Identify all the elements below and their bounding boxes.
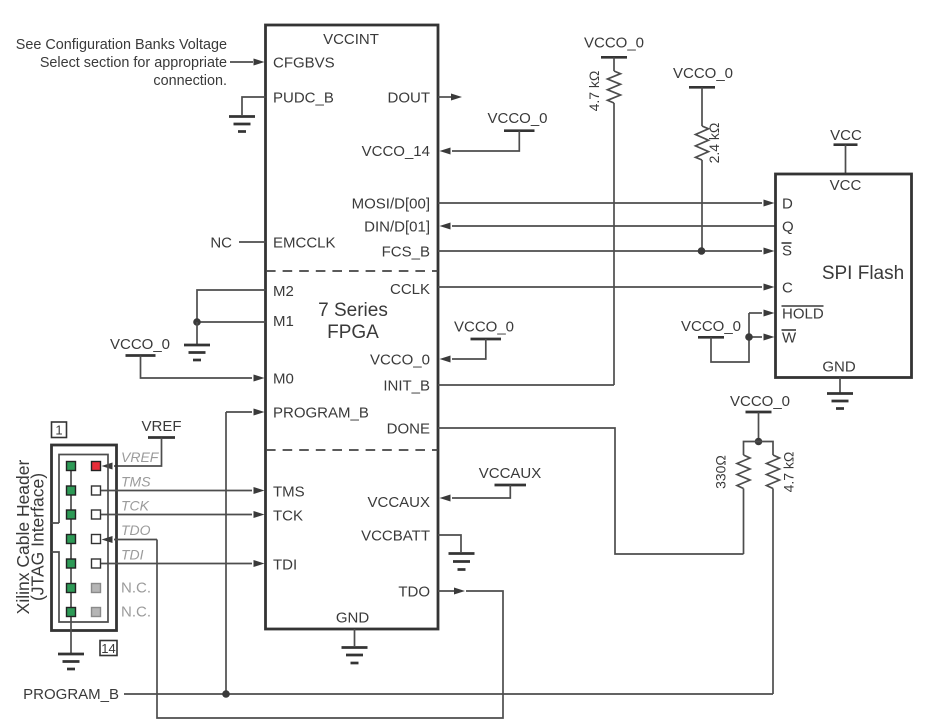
JTAG header J1 — [52, 422, 118, 669]
svg-text:CFGBVS: CFGBVS — [273, 55, 335, 72]
wire PROGRAM_B horizontal net — [124, 693, 773, 695]
svg-text:W: W — [782, 330, 797, 347]
svg-text:VCCO_0: VCCO_0 — [110, 336, 170, 353]
junction W / VCCO_0 — [745, 333, 753, 341]
svg-text:VCC: VCC — [830, 177, 862, 194]
wire DONE to R3 — [438, 428, 744, 554]
svg-text:DOUT: DOUT — [388, 90, 431, 107]
resistor R1 4.7 kOhm — [586, 71, 621, 112]
ground for VCCBATT — [449, 554, 475, 570]
header pin TMS — [92, 486, 101, 495]
power VCCO_0 rail for R3/R4 — [730, 393, 790, 442]
power VREF rail — [102, 418, 182, 470]
junction M1/M2 — [193, 318, 201, 326]
svg-text:D: D — [782, 196, 793, 213]
wire R4 bottom to PROGRAM_B — [772, 489, 774, 695]
svg-text:VCCINT: VCCINT — [323, 31, 379, 48]
header left pin column wire — [70, 466, 72, 612]
dashed partition 2 — [266, 449, 438, 451]
svg-text:VCCO_0: VCCO_0 — [673, 65, 733, 82]
svg-text:GND: GND — [822, 359, 856, 376]
wire MOSI to D — [438, 202, 762, 204]
svg-text:1: 1 — [55, 423, 62, 438]
svg-text:DONE: DONE — [387, 421, 430, 438]
svg-text:SPI Flash: SPI Flash — [822, 263, 904, 284]
svg-text:TCK: TCK — [121, 498, 150, 514]
svg-text:VCCO_0: VCCO_0 — [487, 110, 547, 127]
svg-text:EMCCLK: EMCCLK — [273, 235, 336, 252]
svg-text:Q: Q — [782, 219, 794, 236]
header pin TCK — [92, 510, 101, 519]
svg-text:VCCO_14: VCCO_14 — [362, 143, 430, 160]
svg-text:INIT_B: INIT_B — [383, 378, 430, 395]
power VCCO_0 rail + resistor R1 4.7k (INIT_B pullup) — [584, 35, 644, 72]
wire DOUT out — [438, 96, 453, 98]
svg-text:See Configuration Banks Voltag: See Configuration Banks Voltage — [16, 37, 227, 53]
power VCCO_0 rail + resistor R2 2.4k (FCS pullup) — [673, 65, 733, 126]
power VCCAUX rail — [440, 465, 542, 502]
svg-text:(JTAG Interface): (JTAG Interface) — [28, 473, 48, 601]
svg-text:VCCO_0: VCCO_0 — [730, 393, 790, 410]
power VCCO_0 rail for FPGA VCCO_0 pin — [440, 319, 515, 363]
wire M2 — [197, 290, 266, 322]
header green pins — [67, 462, 76, 471]
wire TDI — [101, 563, 252, 565]
svg-text:M0: M0 — [273, 371, 294, 388]
header pin NC2 gray — [92, 608, 101, 617]
resistor R2 2.4 kOhm — [696, 123, 723, 164]
ground for PUDC_B — [229, 97, 266, 132]
svg-text:N.C.: N.C. — [121, 580, 151, 597]
dashed partition 1 — [266, 270, 438, 272]
wire to HOLD — [749, 312, 762, 314]
svg-text:DIN/D[01]: DIN/D[01] — [364, 219, 430, 236]
junction PROGRAM_B — [222, 690, 230, 698]
wire R2 to FCS_B net — [701, 160, 703, 251]
svg-text:HOLD: HOLD — [782, 306, 824, 323]
wire TDO out of FPGA — [438, 590, 455, 592]
svg-text:VREF: VREF — [141, 418, 181, 435]
wire PROGRAM_B arrow into FPGA — [226, 411, 252, 413]
svg-text:14: 14 — [101, 641, 115, 656]
wire NC to EMCCLK — [239, 241, 266, 243]
FPGA U1 box — [266, 25, 439, 629]
svg-text:GND: GND — [336, 610, 370, 627]
svg-text:VCC: VCC — [830, 127, 862, 144]
wire FCS_B to S — [438, 250, 762, 252]
svg-text:TMS: TMS — [121, 474, 151, 490]
svg-text:330Ω: 330Ω — [713, 455, 729, 489]
header ground stem — [70, 612, 72, 653]
wire PROGRAM_B vertical — [225, 412, 227, 694]
power VCCO_0 rail for VCCO_14 — [440, 110, 548, 155]
svg-text:4.7 kΩ: 4.7 kΩ — [586, 71, 602, 112]
ground for FPGA GND — [342, 629, 368, 663]
header outer box — [52, 445, 117, 631]
junction VCCO_0 / R3 R4 — [755, 438, 763, 446]
wire note to CFGBVS — [230, 61, 253, 63]
header vertical caption — [13, 460, 48, 615]
wire R3 bottom to DONE — [743, 489, 745, 555]
header pin VREF red — [92, 462, 101, 471]
header pin NC1 gray — [92, 584, 101, 593]
SPI Flash U2 box — [776, 174, 912, 378]
wire VCCBATT to ground — [438, 535, 461, 552]
wire INIT_B — [438, 384, 614, 386]
svg-text:TDO: TDO — [121, 522, 151, 538]
header inner outline with key notch — [52, 455, 109, 623]
svg-text:FCS_B: FCS_B — [382, 244, 430, 261]
note: See Configuration Banks Voltage text — [16, 37, 227, 89]
svg-text:VCCO_0: VCCO_0 — [681, 318, 741, 335]
header pin TDI — [92, 559, 101, 568]
svg-text:4.7 kΩ: 4.7 kΩ — [781, 452, 797, 493]
svg-text:M1: M1 — [273, 313, 294, 330]
svg-text:2.4 kΩ: 2.4 kΩ — [706, 123, 722, 164]
wire M1 — [197, 321, 266, 323]
svg-text:TDO: TDO — [398, 584, 430, 601]
pin 14 marker — [100, 641, 117, 656]
power VCCO_0 rail for M0 — [110, 336, 265, 382]
wire R1 to INIT_B — [613, 103, 615, 385]
ground for header — [58, 653, 84, 656]
svg-text:connection.: connection. — [153, 73, 227, 89]
ground for SPI GND — [827, 378, 853, 409]
header pin TDO — [92, 535, 101, 544]
svg-text:FPGA: FPGA — [327, 322, 379, 343]
resistor R4 4.7 kOhm — [767, 452, 797, 493]
power VCCO_0 rail for HOLD/W — [681, 313, 749, 362]
svg-text:S: S — [782, 243, 792, 260]
svg-text:TDI: TDI — [121, 547, 144, 563]
wire TMS — [101, 490, 252, 492]
svg-text:VCCO_0: VCCO_0 — [584, 35, 644, 52]
wire to resistor tops — [744, 442, 774, 456]
svg-text:VCCO_0: VCCO_0 — [370, 352, 430, 369]
svg-text:NC: NC — [210, 235, 232, 252]
svg-text:C: C — [782, 280, 793, 297]
svg-text:M2: M2 — [273, 283, 294, 300]
svg-text:Select section for appropriate: Select section for appropriate — [40, 55, 227, 71]
svg-text:7 Series: 7 Series — [318, 300, 388, 321]
svg-text:TMS: TMS — [273, 484, 305, 501]
svg-text:MOSI/D[00]: MOSI/D[00] — [352, 196, 430, 213]
ground for M1/M2 — [184, 322, 210, 360]
svg-text:N.C.: N.C. — [121, 604, 151, 621]
svg-text:VCCBATT: VCCBATT — [361, 528, 430, 545]
svg-text:VCCO_0: VCCO_0 — [454, 319, 514, 336]
resistor R3 330 Ohm — [713, 455, 751, 489]
wire TDO loop from FPGA to header — [157, 540, 503, 719]
svg-text:TCK: TCK — [273, 508, 303, 525]
junction FCS_B / R2 — [698, 247, 706, 255]
wire TCK — [101, 514, 252, 516]
svg-text:VCCAUX: VCCAUX — [367, 494, 430, 511]
svg-text:PROGRAM_B: PROGRAM_B — [23, 686, 119, 703]
svg-text:PUDC_B: PUDC_B — [273, 90, 334, 107]
svg-text:PROGRAM_B: PROGRAM_B — [273, 405, 369, 422]
svg-text:VREF: VREF — [121, 449, 160, 465]
pin 1 marker — [52, 422, 67, 438]
power VCC rail for SPI — [830, 127, 862, 174]
wire Q to DIN — [452, 225, 775, 227]
svg-text:CCLK: CCLK — [390, 281, 430, 298]
wire to W — [749, 336, 762, 338]
wire CCLK to C — [438, 286, 762, 288]
svg-text:VCCAUX: VCCAUX — [479, 465, 542, 482]
svg-text:TDI: TDI — [273, 557, 297, 574]
